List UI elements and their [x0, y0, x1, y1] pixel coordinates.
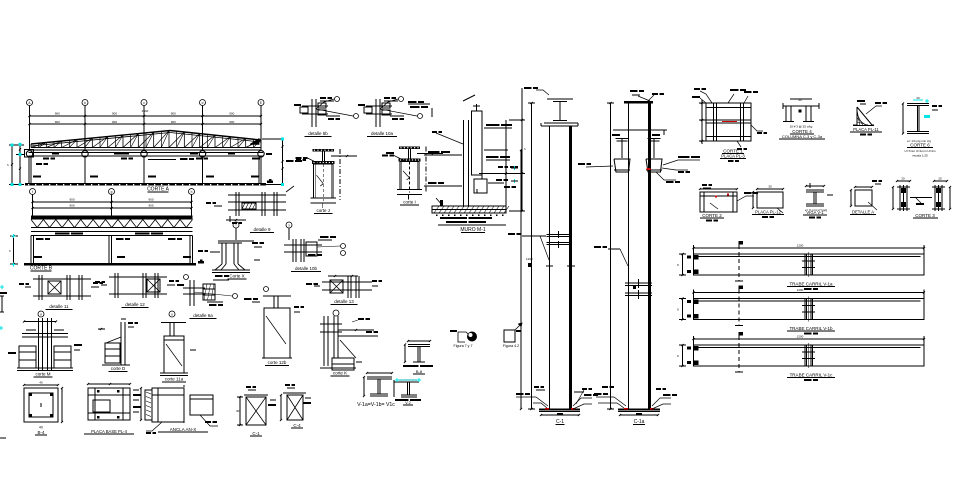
- svg-text:detalle 6a: detalle 6a: [193, 313, 213, 318]
- svg-text:corte 11a: corte 11a: [165, 377, 184, 382]
- svg-text:900: 900: [112, 120, 117, 124]
- svg-text:Figura 4.2: Figura 4.2: [503, 344, 519, 348]
- svg-text:TRABE CARRIL V-1a: TRABE CARRIL V-1a: [789, 282, 833, 287]
- svg-text:3600: 3600: [142, 109, 149, 113]
- svg-text:900: 900: [171, 112, 176, 116]
- svg-text:900: 900: [171, 120, 176, 124]
- svg-text:corte K: corte K: [333, 371, 347, 376]
- svg-text:PLACA PL-3: PLACA PL-3: [721, 154, 745, 159]
- svg-text:E: E: [260, 101, 262, 105]
- svg-text:900: 900: [229, 120, 234, 124]
- svg-text:V-1a=V-1b= V1c: V-1a=V-1b= V1c: [357, 402, 395, 408]
- svg-text:Figura 7 y 7: Figura 7 y 7: [454, 344, 473, 348]
- svg-text:ANCLA AN-X: ANCLA AN-X: [170, 427, 197, 432]
- svg-text:b: b: [84, 101, 86, 105]
- svg-text:d: d: [202, 101, 204, 105]
- svg-text:20: 20: [938, 177, 942, 181]
- svg-text:900: 900: [69, 198, 74, 202]
- svg-text:900: 900: [69, 204, 74, 208]
- svg-text:Corte X: Corte X: [229, 274, 244, 279]
- svg-text:900: 900: [148, 198, 153, 202]
- svg-text:corte J: corte J: [316, 208, 330, 213]
- svg-text:escala 1:25: escala 1:25: [912, 154, 928, 158]
- svg-text:20: 20: [901, 177, 905, 181]
- svg-text:f: f: [32, 190, 33, 194]
- svg-text:g: g: [111, 190, 113, 194]
- svg-text:V-2: V-2: [405, 401, 410, 405]
- svg-text:corte 12b: corte 12b: [268, 360, 287, 365]
- svg-text:detalle 10a: detalle 10a: [371, 131, 394, 136]
- svg-text:40: 40: [39, 381, 43, 385]
- svg-text:detalle 9: detalle 9: [253, 227, 271, 232]
- svg-text:CORTE 2: CORTE 2: [702, 213, 722, 218]
- svg-text:CORTE 6: CORTE 6: [910, 143, 930, 148]
- svg-text:PLACA PL-11: PLACA PL-11: [853, 127, 879, 132]
- svg-text:40: 40: [798, 98, 802, 102]
- svg-text:corte M: corte M: [35, 372, 50, 377]
- svg-text:corte D: corte D: [111, 366, 126, 371]
- svg-text:TRABE CARRIL V-1c: TRABE CARRIL V-1c: [790, 373, 834, 378]
- svg-text:30: 30: [236, 409, 240, 413]
- svg-text:C-1: C-1: [252, 431, 260, 436]
- svg-text:COLUMNA C-3 y C-3a: COLUMNA C-3 y C-3a: [782, 134, 823, 139]
- svg-text:DETALLE A: DETALLE A: [852, 210, 874, 215]
- svg-text:B-4: B-4: [37, 430, 45, 435]
- svg-text:h: h: [191, 190, 193, 194]
- svg-text:TRABE CARRIL V-1b: TRABE CARRIL V-1b: [789, 326, 833, 331]
- svg-text:CORTE 3: CORTE 3: [915, 213, 935, 218]
- svg-text:40: 40: [39, 426, 43, 430]
- svg-text:900: 900: [55, 120, 60, 124]
- svg-text:B-8: B-8: [416, 369, 423, 374]
- svg-text:30: 30: [768, 185, 772, 189]
- svg-text:900: 900: [55, 112, 60, 116]
- svg-text:1200: 1200: [797, 288, 804, 292]
- svg-text:PLACA BASE PL-4: PLACA BASE PL-4: [91, 429, 128, 434]
- svg-text:corte I: corte I: [403, 200, 416, 205]
- svg-text:detalle 6b: detalle 6b: [308, 131, 328, 136]
- svg-text:detalle 12: detalle 12: [125, 302, 145, 307]
- svg-text:1200: 1200: [797, 335, 804, 339]
- svg-text:1200: 1200: [526, 257, 533, 261]
- svg-text:10 # 3 @ 25 c/kg: 10 # 3 @ 25 c/kg: [790, 125, 813, 129]
- svg-text:C-4: C-4: [293, 423, 301, 428]
- svg-text:900: 900: [148, 204, 153, 208]
- svg-text:VIGA V-1: VIGA V-1: [806, 210, 824, 215]
- svg-text:900: 900: [229, 112, 234, 116]
- svg-text:detalle 10b: detalle 10b: [295, 266, 318, 271]
- svg-text:detalle 11: detalle 11: [49, 304, 69, 309]
- svg-text:detalle 13: detalle 13: [334, 299, 354, 304]
- svg-text:1200: 1200: [797, 244, 804, 248]
- svg-text:PLACA PL-12: PLACA PL-12: [755, 210, 782, 215]
- svg-text:U=7mm U=1mm U=4m: U=7mm U=1mm U=4m: [905, 149, 936, 153]
- svg-text:20: 20: [916, 96, 920, 100]
- svg-text:900: 900: [112, 112, 117, 116]
